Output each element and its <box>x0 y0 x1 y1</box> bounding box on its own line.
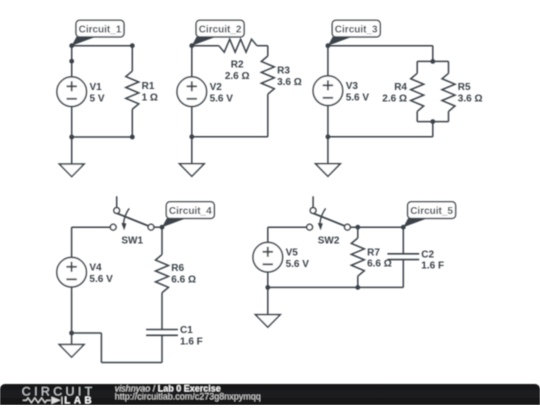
junction: R7 top <box>355 225 360 230</box>
svg-text:1.6 F: 1.6 F <box>421 261 444 272</box>
voltage source V3 <box>313 76 369 106</box>
SW1 actuation arrow <box>124 208 130 223</box>
wire: SW2 common to C2 node <box>350 226 403 228</box>
resistor R7 <box>351 238 392 276</box>
wire: V2 top lead <box>191 46 193 77</box>
node label callout Circuit_2 <box>192 20 244 45</box>
switch SW1 <box>110 196 154 246</box>
wire: junction to riser <box>72 332 102 334</box>
ground circuit 5 <box>255 315 280 328</box>
node: Circuit_3 top-left junction <box>326 43 331 48</box>
svg-text:Circuit_4: Circuit_4 <box>169 206 212 217</box>
junction on V1 top lead <box>69 59 74 64</box>
wire: C2 bottom lead <box>402 260 404 288</box>
wire: parallel bottom bar <box>417 121 448 123</box>
svg-text:Circuit_1: Circuit_1 <box>79 25 122 36</box>
svg-text:V2: V2 <box>210 82 223 93</box>
ground circuit 1 <box>59 164 84 177</box>
voltage source V5 <box>253 242 309 272</box>
svg-text:V3: V3 <box>346 81 359 92</box>
wire: V3 top lead <box>327 46 329 76</box>
wire: R7 bottom lead <box>357 276 359 287</box>
svg-text:C2: C2 <box>421 249 434 260</box>
svg-text:2.6 Ω: 2.6 Ω <box>225 71 250 82</box>
wire: node to R2 left <box>192 45 219 47</box>
wire: R7 top lead <box>357 227 359 238</box>
wire: R5 bottom lead <box>448 111 450 121</box>
CircuitLab logo resistor-diode glyph <box>23 397 62 404</box>
wire: R3 bottom lead <box>267 94 269 137</box>
junction: parallel top <box>430 59 435 64</box>
ground circuit 4 <box>59 345 84 358</box>
svg-text:Circuit_3: Circuit_3 <box>335 25 378 36</box>
wire: V3 bottom lead <box>327 106 329 137</box>
svg-text:V5: V5 <box>286 248 299 259</box>
wire: bottom riser circuit 4 <box>100 333 102 363</box>
SW1 common terminal <box>148 224 154 230</box>
junction: R1 top <box>130 43 135 48</box>
wire: R1 top lead <box>131 46 133 71</box>
svg-text:R2: R2 <box>231 60 244 71</box>
resistor R2 <box>219 39 257 82</box>
svg-text:http://circuitlab.com/c273g8nx: http://circuitlab.com/c273g8nxpymqq <box>115 392 261 402</box>
wire: R2 right to corner <box>257 45 268 47</box>
wire: SW1 common to node <box>154 226 162 228</box>
resistor R1 <box>126 71 158 109</box>
wire: SW2 left to V5 column <box>268 226 307 228</box>
voltage source V4 <box>57 257 113 287</box>
node: Circuit_2 top-left junction <box>189 43 194 48</box>
svg-text:SW1: SW1 <box>121 235 143 246</box>
SW2 top terminal <box>310 208 316 214</box>
svg-text:SW2: SW2 <box>318 235 340 246</box>
wire: C1 bottom lead <box>161 335 163 362</box>
wire: R5 top lead <box>448 61 450 73</box>
ground circuit 2 <box>179 164 204 177</box>
resistor R4 <box>382 73 423 111</box>
wire: parallel top bar <box>417 60 448 62</box>
wire: ground stem circuit 1 <box>71 137 73 164</box>
wire: top net circuit 1 <box>72 45 133 47</box>
node: Circuit_4 junction <box>160 225 165 230</box>
voltage source V2 <box>177 77 233 107</box>
svg-text:R6: R6 <box>171 263 184 274</box>
junction: V4 bottom / ground <box>69 331 74 336</box>
wire: bottom net circuit 2 <box>192 136 268 138</box>
SW1 blade <box>114 212 148 226</box>
SW1 left terminal <box>110 224 116 230</box>
wire: SW1 left to V4 column <box>72 226 111 228</box>
junction: parallel bottom <box>430 119 435 124</box>
node label callout Circuit_3 <box>328 20 380 45</box>
svg-text:3.6 Ω: 3.6 Ω <box>458 93 483 104</box>
wire: R6 to C1 <box>161 293 163 330</box>
svg-text:5.6 V: 5.6 V <box>210 93 234 104</box>
junction: bottom left circuit 2 <box>189 134 194 139</box>
capacitor C1 <box>146 325 203 347</box>
resistor R3 <box>261 56 302 94</box>
wire: ground stem circuit 2 <box>191 137 193 164</box>
svg-text:5.6 V: 5.6 V <box>346 92 370 103</box>
wire: V5 top lead <box>267 227 269 242</box>
wire: bottom run circuit 4 <box>101 362 162 364</box>
wire: C2 top lead <box>402 227 404 254</box>
svg-text:1.6 F: 1.6 F <box>180 336 203 347</box>
wire: R4 bottom lead <box>416 111 418 121</box>
wire: ground stem circuit 3 <box>327 137 329 164</box>
svg-text:R7: R7 <box>367 247 380 258</box>
wire: bottom net circuit 1 <box>72 136 133 138</box>
SW1 top throw stub <box>116 196 118 207</box>
svg-text:Circuit_2: Circuit_2 <box>199 25 242 36</box>
node: Circuit_1 top-left junction <box>69 43 74 48</box>
svg-text:V4: V4 <box>89 263 102 274</box>
svg-text:6.6 Ω: 6.6 Ω <box>171 274 196 285</box>
SW2 left terminal <box>307 224 313 230</box>
svg-text:Circuit_5: Circuit_5 <box>410 206 453 217</box>
svg-text:5 V: 5 V <box>90 93 105 104</box>
svg-text:1 Ω: 1 Ω <box>142 93 158 104</box>
SW1 top terminal <box>114 208 120 214</box>
wire: V2 bottom lead <box>191 107 193 137</box>
junction: R7 bottom <box>355 285 360 290</box>
wire: V4 bottom lead <box>71 287 73 333</box>
node: Circuit_5 junction <box>401 225 406 230</box>
ground circuit 3 <box>316 164 341 177</box>
junction: V5 bottom / ground <box>265 285 270 290</box>
SW2 top throw stub <box>312 196 314 207</box>
junction: R1 bottom <box>130 135 135 140</box>
wire: bottom net circuit 3 <box>328 136 433 138</box>
wire: ground stem circuit 5 <box>267 287 269 314</box>
svg-text:V1: V1 <box>90 82 103 93</box>
svg-text:R5: R5 <box>458 82 471 93</box>
wire: R1 bottom lead <box>131 109 133 137</box>
resistor R5 <box>442 73 483 111</box>
wire: V4 top lead <box>71 227 73 257</box>
svg-text:C1: C1 <box>180 325 193 336</box>
wire: bottom net circuit 5 <box>268 286 404 288</box>
SW2 common terminal <box>345 224 351 230</box>
SW2 actuation arrow <box>320 208 326 223</box>
wire: R3 top lead <box>267 46 269 56</box>
wire: R4 top lead <box>416 61 418 73</box>
svg-text:5.6 V: 5.6 V <box>286 259 310 270</box>
capacitor C2 <box>387 249 444 271</box>
junction: bottom left circuit 3 <box>326 134 331 139</box>
switch SW2 <box>307 196 351 246</box>
voltage source V1 <box>57 77 105 107</box>
svg-text:R3: R3 <box>277 66 290 77</box>
node label callout Circuit_1 <box>72 20 124 45</box>
wire: R6 top lead <box>161 227 163 254</box>
wire: V5 bottom lead <box>267 272 269 287</box>
node label callout Circuit_4 <box>162 202 214 227</box>
SW2 blade <box>311 212 345 226</box>
node label callout Circuit_5 <box>403 202 455 227</box>
svg-text:3.6 Ω: 3.6 Ω <box>277 77 302 88</box>
svg-text:R4: R4 <box>394 82 407 93</box>
svg-text:R1: R1 <box>142 81 155 92</box>
wire: down to parallel top <box>432 46 434 62</box>
resistor R6 <box>156 255 197 293</box>
svg-text:LAB: LAB <box>64 395 91 405</box>
svg-text:5.6 V: 5.6 V <box>89 274 113 285</box>
svg-text:2.6 Ω: 2.6 Ω <box>382 93 407 104</box>
wire: parallel bottom to net <box>432 122 434 137</box>
wire: top net circuit 3 <box>328 45 433 47</box>
wire: V1 bottom lead <box>71 107 73 138</box>
wire: V1 top lead <box>71 46 73 77</box>
wire: ground stem circuit 4 <box>71 333 73 345</box>
junction: bottom left circuit 1 <box>69 135 74 140</box>
